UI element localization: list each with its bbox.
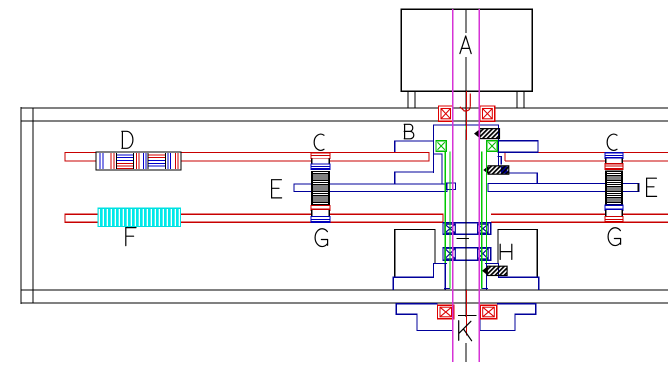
spline bearing rows H [443,223,491,260]
upper flange of quill housing (blue) [393,264,538,291]
head inner step left [434,154,443,184]
head inner step right [498,156,502,164]
upper left shaft (red) [65,153,429,161]
centerline break dash lower [458,315,477,317]
gearbox housing top outer line [21,107,668,109]
head top cap [434,125,499,173]
head left step to E shaft [395,172,434,184]
label K [459,321,472,341]
lower right shaft (red) [491,214,668,222]
motor A body [401,9,532,91]
label A [460,36,471,54]
gear C/G left module [311,153,330,206]
top rolling bearing right (red X box) [480,106,495,121]
head left lip [395,141,434,152]
left E shaft end box [447,183,456,189]
magenta centerline left [452,9,454,362]
head right lip [498,141,539,153]
gearbox housing top inner line [21,120,668,122]
motor left leg [407,91,409,108]
label D [122,131,133,148]
gearbox housing left wall inner [32,108,34,303]
seal arrow 3 (lower) [482,266,507,275]
top rolling bearing left (red X box) [439,106,454,121]
label G (right) [608,228,621,246]
green tick on spindle top [465,126,467,130]
label H [500,244,512,259]
magenta centerline right [478,9,480,362]
right E shaft end cap [637,184,639,192]
head right step to E shaft [499,173,538,184]
motor right leg [516,91,518,108]
label E (right) [647,178,657,196]
upper right shaft (red) [505,153,668,161]
red hook (coupling) [460,94,470,111]
red spindle line lower segment [466,290,468,336]
label B [404,124,414,139]
black spindle centerline [465,9,467,362]
bore lines (black) around quill [395,230,538,278]
green spline shaft line inner left [449,152,451,289]
gear C/G right module [605,153,623,206]
label E (left) [272,180,282,198]
green spline shaft line outer right [486,152,488,264]
feed screw F block (cyan) [98,208,181,226]
seal arrow 2 (middle) with blue insert [483,166,509,174]
lower left shaft (red) [65,214,443,222]
upper green bearing left [436,141,446,152]
gearbox housing left wall outer [20,107,22,304]
bottom rolling bearing left (red X box) [438,305,455,319]
quill side walls (blue) [444,263,488,290]
centerline break dash upper [457,237,470,239]
bottom rolling bearing right (red X box) [480,305,497,319]
coupling D block [96,152,181,170]
left E shaft (blue) [294,184,447,192]
label C (right) [607,134,617,150]
upper green bearing right [487,141,497,152]
green spline shaft line outer left [444,152,446,264]
seal arrow 1 (upper) [474,129,500,139]
red spindle line upper segment [466,91,468,140]
bottom flange (blue) below housing [396,304,535,331]
gearbox housing bottom outer line [21,302,668,304]
label F [126,228,136,246]
gearbox housing bottom inner line [21,289,668,291]
label G (left) [315,229,328,247]
green spline shaft line inner right [481,152,483,289]
right E shaft (blue) [488,184,639,192]
label C (left) [314,134,324,150]
spindle head housing (blue) [395,125,538,184]
